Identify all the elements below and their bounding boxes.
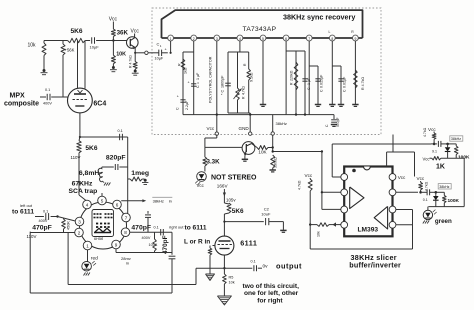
svg-text:4.7kΩ: 4.7kΩ (241, 86, 245, 95)
svg-text:green: green (435, 218, 452, 225)
svg-text:Vcc: Vcc (423, 156, 430, 161)
svg-text:SCA trap: SCA trap (69, 188, 98, 195)
svg-text:red: red (91, 256, 98, 262)
svg-text:450K: 450K (67, 221, 71, 230)
svg-text:470pF: 470pF (131, 225, 151, 232)
svg-text:output: output (276, 262, 302, 271)
svg-text:composite: composite (4, 101, 39, 108)
svg-text:GND: GND (239, 126, 250, 131)
svg-text:38KHz sync recovery: 38KHz sync recovery (283, 13, 355, 22)
svg-text:500pF: 500pF (336, 117, 340, 127)
svg-text:5: 5 (262, 37, 264, 41)
svg-text:10k: 10k (229, 281, 235, 285)
svg-text:1kΩ: 1kΩ (184, 67, 188, 74)
svg-text:L: L (329, 30, 331, 34)
svg-text:1 µF: 1 µF (196, 72, 200, 80)
svg-text:4.7kΩ: 4.7kΩ (129, 55, 133, 65)
svg-text:0.1: 0.1 (45, 88, 50, 92)
svg-text:9.1: 9.1 (432, 150, 437, 154)
svg-text:0v: 0v (263, 264, 269, 270)
svg-text:+56K: +56K (65, 48, 75, 53)
svg-text:400V: 400V (142, 236, 151, 240)
svg-text:9.1kΩ: 9.1kΩ (250, 72, 254, 82)
svg-text:8: 8 (124, 230, 127, 235)
svg-text:left out: left out (20, 203, 33, 208)
svg-text:Vcc: Vcc (305, 173, 313, 178)
svg-text:1800pF: 1800pF (221, 75, 225, 88)
svg-text:4: 4 (86, 202, 89, 207)
svg-text:220kΩ: 220kΩ (290, 70, 294, 81)
svg-text:38kHz: 38kHz (153, 198, 164, 203)
svg-text:* C: * C (221, 90, 225, 95)
svg-text:10K: 10K (116, 52, 126, 58)
svg-text:36K: 36K (117, 30, 129, 37)
svg-text:400V: 400V (43, 102, 52, 106)
svg-text:400V: 400V (39, 219, 48, 223)
svg-text:5K6: 5K6 (71, 28, 83, 35)
svg-text:6111: 6111 (240, 239, 257, 248)
svg-text:0.1: 0.1 (43, 210, 48, 214)
svg-text:C: C (176, 107, 180, 110)
svg-text:470pF: 470pF (32, 225, 52, 232)
svg-text:6: 6 (285, 37, 287, 41)
svg-text:6: 6 (116, 202, 119, 207)
svg-text:105v: 105v (226, 198, 236, 203)
svg-text:NOT STEREO: NOT STEREO (211, 175, 257, 182)
svg-text:Vcc: Vcc (398, 175, 406, 180)
svg-text:0.1: 0.1 (423, 198, 428, 202)
svg-text:R: R (178, 63, 182, 66)
svg-text:38kHz: 38kHz (439, 185, 449, 189)
svg-text:L or R in: L or R in (184, 239, 210, 246)
svg-text:4.7kΩ: 4.7kΩ (425, 181, 429, 191)
svg-text:0.015µF: 0.015µF (320, 74, 324, 88)
svg-text:1meg: 1meg (131, 170, 149, 177)
svg-text:100K: 100K (448, 198, 460, 204)
svg-text:1: 1 (86, 243, 89, 248)
svg-text:7: 7 (308, 37, 310, 41)
svg-text:470pF: 470pF (162, 235, 169, 254)
svg-text:0.1: 0.1 (154, 226, 159, 230)
svg-text:4: 4 (239, 37, 241, 41)
svg-text:38kHz: 38kHz (276, 121, 287, 126)
svg-text:+: + (177, 95, 179, 99)
svg-text:4.7kΩ: 4.7kΩ (298, 180, 302, 190)
svg-text:3.3K: 3.3K (207, 159, 221, 166)
svg-text:1: 1 (170, 37, 172, 41)
svg-text:10µF: 10µF (155, 57, 164, 61)
svg-text:R 4.7kΩ: R 4.7kΩ (361, 77, 365, 90)
svg-text:10k: 10k (28, 43, 37, 49)
svg-text:2: 2 (193, 37, 195, 41)
svg-text:7: 7 (125, 215, 128, 220)
svg-text:0.01µF: 0.01µF (343, 76, 347, 88)
svg-text:POLYSTYROL CAPACITOR: POLYSTYROL CAPACITOR (209, 56, 213, 103)
svg-text:8: 8 (331, 37, 333, 41)
svg-text:2: 2 (78, 230, 81, 235)
svg-text:6,8mH: 6,8mH (79, 170, 99, 177)
svg-text:in: in (169, 198, 172, 203)
svg-text:1K: 1K (436, 163, 445, 170)
svg-text:Vcc: Vcc (428, 127, 436, 132)
svg-text:Vcc: Vcc (417, 176, 425, 181)
svg-text:to 6111: to 6111 (12, 209, 34, 216)
svg-text:right out: right out (169, 225, 184, 230)
svg-text:10k: 10k (317, 231, 321, 237)
svg-text:2.2µF: 2.2µF (185, 100, 189, 110)
svg-text:C: C (196, 85, 200, 88)
svg-text:R5: R5 (229, 276, 234, 280)
svg-text:0.1: 0.1 (251, 260, 256, 264)
svg-text:4.7kΩ: 4.7kΩ (423, 127, 427, 137)
svg-text:Vcc: Vcc (197, 183, 205, 188)
svg-text:3: 3 (216, 37, 218, 41)
svg-text:110V: 110V (27, 234, 37, 239)
svg-text:6C4: 6C4 (93, 101, 106, 108)
svg-text:MPX: MPX (10, 93, 26, 100)
svg-text:for right: for right (257, 297, 283, 304)
svg-text:9: 9 (115, 242, 118, 247)
svg-text:5K6: 5K6 (232, 208, 244, 215)
svg-text:166V: 166V (217, 184, 229, 189)
svg-text:9: 9 (354, 37, 356, 41)
svg-text:5K6: 5K6 (85, 145, 97, 152)
svg-text:two of this circuit,: two of this circuit, (243, 283, 300, 290)
svg-text:10µF: 10µF (90, 45, 100, 50)
svg-text:TA7343AP: TA7343AP (243, 26, 277, 33)
svg-text:LM393: LM393 (358, 227, 379, 234)
svg-text:+: + (188, 81, 190, 85)
svg-text:buffer/inverter: buffer/inverter (349, 261, 401, 270)
svg-text:one for left, other: one for left, other (244, 290, 299, 297)
svg-text:330kΩ: 330kΩ (273, 157, 277, 168)
svg-text:10K: 10K (258, 150, 267, 155)
svg-text:in: in (126, 261, 129, 266)
svg-text:3: 3 (78, 219, 81, 224)
svg-text:820pF: 820pF (106, 155, 126, 162)
svg-text:0.1: 0.1 (118, 129, 123, 133)
svg-text:38kHz: 38kHz (451, 137, 461, 141)
svg-text:to 6111: to 6111 (185, 225, 207, 232)
svg-text:10uF: 10uF (261, 212, 271, 217)
svg-text:67KHz: 67KHz (72, 181, 93, 188)
svg-text:5: 5 (101, 198, 104, 203)
svg-text:Vcc: Vcc (207, 126, 215, 131)
svg-text:6Н5б: 6Н5б (94, 237, 104, 241)
